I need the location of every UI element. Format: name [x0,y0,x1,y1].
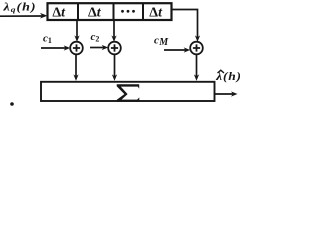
wire output [215,93,235,95]
wire tap 2 down [113,20,115,39]
arrowhead c2 [102,45,109,50]
arrowhead c1 [64,45,71,50]
plus sign adder 2 [111,44,118,51]
summation box [41,82,215,101]
svg-text:c2: c2 [91,31,100,44]
svg-text:λq(h): λq(h) [2,1,36,14]
plus sign adder 1 [73,44,80,51]
wire c2 arrow [90,47,105,49]
svg-text:Δt: Δt [52,6,66,21]
arrowhead input [40,13,48,19]
wire c1 arrow [41,47,67,49]
wire adder3 down to sum [196,54,198,77]
svg-text:c1: c1 [43,32,52,45]
divider 1 [77,3,79,20]
arrowhead tap2 [111,35,116,42]
arrowhead cM [184,47,191,52]
arrowhead drop1 [73,74,78,81]
sum sigma symbol [117,84,140,102]
svg-text:cM: cM [154,34,169,48]
arrowhead drop2 [112,74,117,81]
wire cM arrow [164,49,187,51]
wire tap 1 down [76,20,78,39]
plus sign adder 3 [193,44,200,51]
dots cell [121,10,124,13]
divider 3 [142,3,144,20]
svg-text:Δt: Δt [149,6,163,21]
arrowhead output [231,91,238,96]
delay line box [48,3,172,20]
ink dot artifact [10,102,14,106]
arrowhead drop3 [194,74,199,81]
wire adder1 down to sum [75,54,77,77]
adder 1 circle [70,42,83,55]
adder 3 circle [190,42,203,55]
adder 2 circle [108,42,121,55]
divider 2 [113,3,115,20]
svg-text:Δt: Δt [88,6,102,21]
wire last box to right and down [172,10,198,39]
wire input λq(h) [0,15,42,17]
arrowhead tap1 [74,35,79,42]
arrowhead tap3 [195,35,200,42]
wire adder2 down to sum [114,54,116,77]
